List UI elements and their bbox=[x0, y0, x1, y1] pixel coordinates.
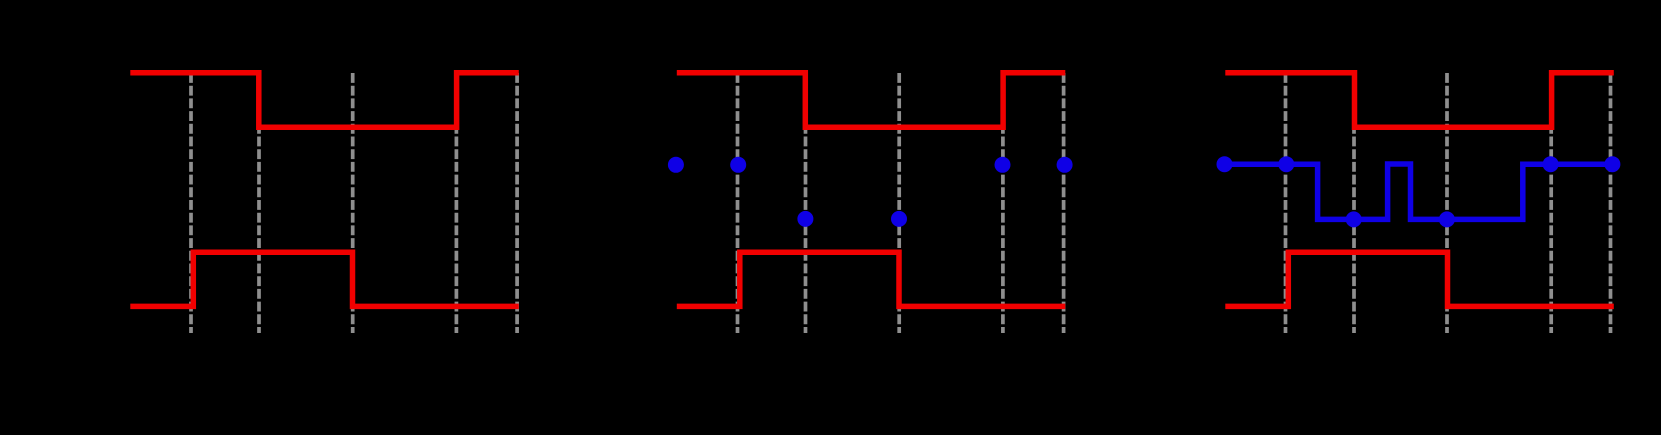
clock-edge dashed line P1-T5 bbox=[515, 73, 519, 333]
clock-edge dashed line P2-T2 bbox=[804, 73, 808, 333]
clock-edge dashed line P1-T4 bbox=[455, 73, 459, 333]
wave A panel 3 (top red square wave) bbox=[1225, 73, 1614, 127]
clock-edge dashed line P1-T2 bbox=[257, 73, 261, 333]
clock-edge dashed line P2-T5 bbox=[1062, 73, 1066, 333]
sample dot P3-S3 bbox=[1439, 211, 1455, 227]
sample dot P2-S5 bbox=[1057, 157, 1073, 173]
clock-edge dashed line P3-T4 bbox=[1549, 73, 1553, 333]
clock-edge dashed line P2-T4 bbox=[1001, 73, 1005, 333]
sample dot P2-S4 bbox=[995, 157, 1011, 173]
sample dot P2-S1 bbox=[730, 157, 746, 173]
clock-edge dashed line P1-T3 bbox=[351, 73, 355, 333]
wave A panel 2 (top red square wave) bbox=[677, 73, 1066, 127]
clock-edge dashed line P3-T2 bbox=[1352, 73, 1356, 333]
wave B panel 1 (bottom red square wave) bbox=[130, 252, 519, 306]
wave B panel 2 (bottom red square wave) bbox=[677, 252, 1066, 306]
sample dot P3-S2 bbox=[1346, 211, 1362, 227]
sample dot P2-S2 bbox=[797, 211, 813, 227]
sample dot P3-S1 bbox=[1278, 156, 1294, 172]
sample dot P2-S3 bbox=[891, 211, 907, 227]
clock-edge dashed line P3-T1 bbox=[1284, 73, 1288, 333]
clock-edge dashed line P3-T5 bbox=[1609, 73, 1613, 333]
sample dot P3-S4 bbox=[1543, 156, 1559, 172]
sample dot P2-S0 bbox=[668, 157, 684, 173]
sample dot P3-S5 bbox=[1604, 156, 1620, 172]
wave B panel 3 (bottom red square wave) bbox=[1225, 252, 1614, 306]
clock-edge dashed line P2-T1 bbox=[736, 73, 740, 333]
clock-edge dashed line P2-T3 bbox=[897, 73, 901, 333]
sample dot P3-S0 bbox=[1217, 156, 1233, 172]
clock-edge dashed line P1-T1 bbox=[189, 73, 193, 333]
synchronized output wave (blue) panel 3 bbox=[1225, 164, 1613, 219]
clock-edge dashed line P3-T3 bbox=[1445, 73, 1449, 333]
wave A panel 1 (top red square wave) bbox=[130, 73, 519, 127]
